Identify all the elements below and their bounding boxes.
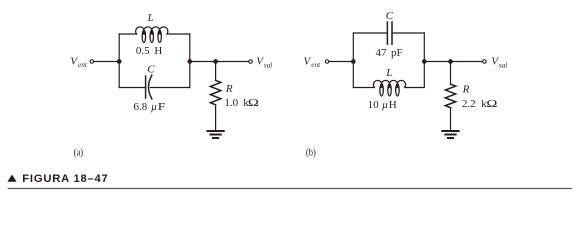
wire output to Vsal terminal (a) xyxy=(190,61,249,63)
resistor R 1.0k lead top (a) xyxy=(215,62,217,81)
svg-text:47: 47 xyxy=(376,47,388,59)
caption triangle marker xyxy=(7,175,16,182)
svg-text:10: 10 xyxy=(368,99,380,111)
wire right rail (a) xyxy=(189,34,191,88)
wire bottom branch left segment (b) xyxy=(353,87,374,89)
capacitor C 47pF right plate (b) xyxy=(391,22,393,44)
svg-text:(a): (a) xyxy=(74,147,84,159)
terminal Vent open circle (b) xyxy=(325,60,329,64)
terminal Vsal open circle (a) xyxy=(249,60,253,64)
capacitor C 47pF left plate (b) xyxy=(386,22,388,44)
wire Vent terminal to left rail (b) xyxy=(329,61,353,63)
svg-text:FIGURA 18–47: FIGURA 18–47 xyxy=(22,173,108,185)
svg-text:Ω: Ω xyxy=(486,98,497,110)
svg-text:H: H xyxy=(154,45,162,57)
junction node dot left (b) xyxy=(351,59,356,64)
svg-text:(b): (b) xyxy=(306,147,316,159)
svg-text:1.0: 1.0 xyxy=(224,97,238,109)
wire left rail (a) xyxy=(118,34,120,88)
wire right rail (b) xyxy=(423,33,425,88)
junction node dot right (b) xyxy=(422,59,427,64)
wire bottom branch right segment (a) xyxy=(150,87,189,89)
resistor R 1.0k zigzag (a) xyxy=(210,80,220,104)
ground symbol (a) xyxy=(207,131,223,138)
wire bottom branch right segment (b) xyxy=(405,87,425,89)
resistor R 2.2k zigzag (b) xyxy=(445,84,455,107)
junction node dot resistor (b) xyxy=(448,59,453,64)
svg-text:L: L xyxy=(385,67,392,79)
svg-text:Ω: Ω xyxy=(248,97,259,109)
ground symbol (b) xyxy=(442,131,458,138)
resistor R 2.2k lead top (b) xyxy=(450,62,452,85)
wire top branch left segment (a) xyxy=(119,33,136,35)
svg-text:6.8: 6.8 xyxy=(134,101,148,113)
svg-text:ent: ent xyxy=(78,61,88,69)
svg-text:sal: sal xyxy=(499,61,507,69)
svg-text:R: R xyxy=(462,83,470,95)
svg-text:H: H xyxy=(389,99,397,111)
capacitor C 6.8uF straight plate (a) xyxy=(145,76,147,98)
wire top branch right segment (b) xyxy=(392,32,424,34)
svg-text:V: V xyxy=(70,55,78,67)
resistor R 1.0k lead bottom (a) xyxy=(215,105,217,131)
svg-text:R: R xyxy=(225,83,233,95)
svg-text:C: C xyxy=(147,63,155,75)
terminal Vsal open circle (b) xyxy=(483,60,487,64)
svg-text:C: C xyxy=(386,10,394,22)
wire bottom branch left segment (a) xyxy=(119,87,145,89)
wire Vent terminal to left rail (a) xyxy=(94,61,119,63)
junction node dot resistor (a) xyxy=(213,59,218,64)
svg-text:μ: μ xyxy=(150,101,157,113)
capacitor C 6.8uF curved plate (a) xyxy=(149,75,152,99)
wire left rail (b) xyxy=(352,33,354,88)
caption rule xyxy=(8,188,572,190)
svg-text:sal: sal xyxy=(264,61,272,69)
svg-text:F: F xyxy=(158,101,166,113)
terminal Vent open circle (a) xyxy=(90,60,94,64)
wire top branch right segment (a) xyxy=(167,33,190,35)
svg-text:ent: ent xyxy=(311,61,321,69)
wire output to Vsal terminal (b) xyxy=(424,61,482,63)
junction node dot left (a) xyxy=(117,59,122,64)
junction node dot right (a) xyxy=(187,59,192,64)
svg-text:pF: pF xyxy=(391,47,403,59)
resistor R 2.2k lead bottom (b) xyxy=(450,108,452,131)
inductor L 10uH coil (b) xyxy=(373,80,405,96)
svg-text:L: L xyxy=(147,12,154,24)
inductor L 0.5 H coil (a) xyxy=(136,27,168,43)
wire top branch left segment (b) xyxy=(353,32,387,34)
svg-text:2.2: 2.2 xyxy=(462,98,476,110)
svg-text:0.5: 0.5 xyxy=(136,45,150,57)
svg-text:μ: μ xyxy=(381,99,388,111)
svg-text:V: V xyxy=(304,55,312,67)
